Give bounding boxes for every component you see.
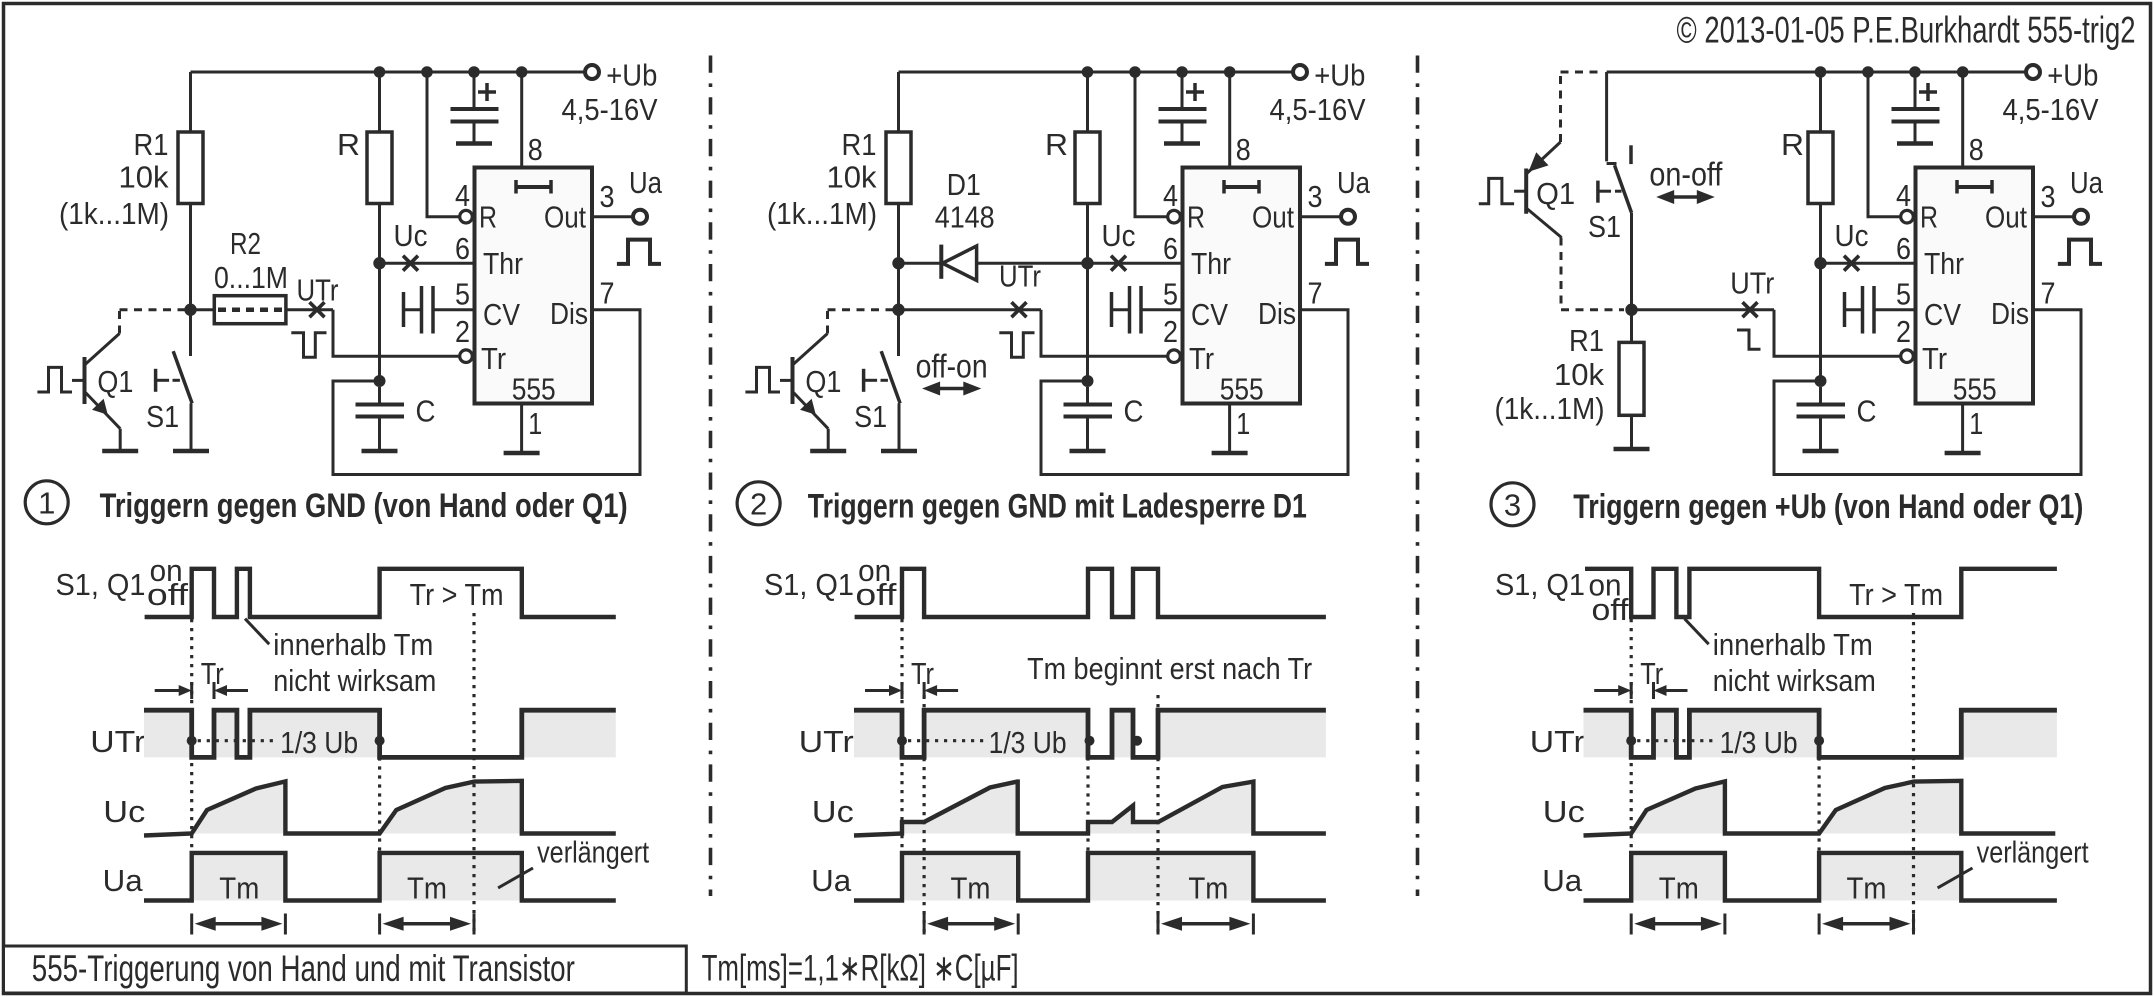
resistor R1 xyxy=(189,72,192,132)
separator panel 1/2 dash-dot xyxy=(709,56,713,897)
svg-text:R1: R1 xyxy=(842,127,877,162)
capacitor CV to ground xyxy=(402,292,406,327)
svg-text:555: 555 xyxy=(512,372,556,407)
svg-text:555: 555 xyxy=(1953,372,1997,407)
node 1/3Ub dots xyxy=(187,736,197,746)
ground S1 xyxy=(881,449,917,454)
symbol trigger pulse negative xyxy=(999,333,1034,357)
svg-text:Q1: Q1 xyxy=(805,364,841,399)
svg-text:CV: CV xyxy=(1191,297,1228,332)
node C top junction xyxy=(374,375,386,387)
svg-text:(1k...1M): (1k...1M) xyxy=(767,196,877,231)
svg-text:1: 1 xyxy=(1969,406,1983,441)
svg-text:Thr: Thr xyxy=(483,246,523,281)
line 1/3Ub dotted xyxy=(1637,739,1717,742)
svg-text:CV: CV xyxy=(1924,297,1961,332)
svg-text:8: 8 xyxy=(528,132,543,167)
svg-text:Q1: Q1 xyxy=(1536,176,1575,211)
svg-text:4,5-16V: 4,5-16V xyxy=(1270,92,1366,127)
svg-text:UTr: UTr xyxy=(799,724,854,759)
wire R1 to D1 node xyxy=(897,204,900,310)
wire +Ub supply rail xyxy=(899,71,1294,74)
svg-text:6: 6 xyxy=(455,231,470,266)
wire Dis loop xyxy=(333,310,640,475)
svg-text:10k: 10k xyxy=(119,160,169,195)
transistor Q1 xyxy=(37,367,72,392)
svg-text:Ua: Ua xyxy=(629,165,663,200)
resistor R1 xyxy=(897,72,900,132)
resistor R xyxy=(378,72,381,132)
wire Out xyxy=(2033,215,2074,218)
svg-text:Uc: Uc xyxy=(812,794,854,829)
probe Uc x-mark xyxy=(1111,256,1126,271)
svg-text:5: 5 xyxy=(1896,277,1911,312)
node 1/3Ub dots xyxy=(1626,736,1636,746)
svg-text:10k: 10k xyxy=(827,160,877,195)
terminal +Ub xyxy=(1293,65,1307,79)
svg-text:© 2013-01-05 P.E.Burkhardt 555: © 2013-01-05 P.E.Burkhardt 555-trig2 xyxy=(1677,10,2136,51)
svg-text:R: R xyxy=(337,127,360,162)
symbol move arrow xyxy=(1672,195,1699,199)
callout innerhalb line xyxy=(245,619,269,645)
wire trigger to Tr xyxy=(1041,310,1168,357)
node 1/3Ub dots xyxy=(897,736,907,746)
waveform S1/Q1 xyxy=(145,569,616,617)
symbol output pulse xyxy=(2058,240,2102,264)
svg-text:Uc: Uc xyxy=(394,218,428,253)
line dotted guides xyxy=(900,619,903,853)
svg-text:Out: Out xyxy=(544,200,586,235)
switch S1 xyxy=(897,310,900,356)
waveform Uc xyxy=(1631,781,1725,833)
ground C xyxy=(362,449,398,454)
waveform Uc xyxy=(902,782,1018,834)
arrow Tm measure xyxy=(378,914,381,935)
svg-text:(1k...1M): (1k...1M) xyxy=(59,196,169,231)
line dotted guides xyxy=(190,619,193,853)
wire Out xyxy=(1300,215,1341,218)
node rail junction dots xyxy=(1815,66,1827,78)
waveform UTr trace xyxy=(1584,710,2057,757)
node trigger junction xyxy=(184,304,196,316)
svg-text:6: 6 xyxy=(1896,231,1911,266)
node R1/D1 junction xyxy=(892,257,904,269)
svg-text:5: 5 xyxy=(455,277,470,312)
wire dashed Q1 collector link xyxy=(826,310,829,334)
bottom title box xyxy=(4,946,687,993)
svg-text:Tm: Tm xyxy=(951,871,991,906)
line dotted guides xyxy=(1630,619,1633,853)
svg-text:UTr: UTr xyxy=(1530,724,1585,759)
svg-text:1/3 Ub: 1/3 Ub xyxy=(1720,725,1798,760)
svg-text:S1, Q1: S1, Q1 xyxy=(764,567,854,602)
svg-text:8: 8 xyxy=(1236,132,1251,167)
wire trigger to Tr xyxy=(333,310,460,357)
transistor Q1 xyxy=(745,367,780,392)
symbol trigger pulse negative xyxy=(291,333,326,357)
wire reset pin4 xyxy=(427,72,460,217)
svg-text:S1: S1 xyxy=(854,399,887,434)
svg-text:nicht wirksam: nicht wirksam xyxy=(1713,663,1876,698)
svg-text:Uc: Uc xyxy=(1543,794,1585,829)
svg-text:Ua: Ua xyxy=(811,863,852,898)
svg-text:Q1: Q1 xyxy=(97,364,133,399)
resistor R xyxy=(1819,72,1822,132)
op-amp U1 555 timer IC xyxy=(1916,168,2034,404)
svg-text:Ua: Ua xyxy=(1542,863,1583,898)
svg-text:R: R xyxy=(1920,200,1938,235)
diode D1 xyxy=(899,262,942,265)
arrow Tm measure xyxy=(1157,914,1160,935)
svg-text:Ua: Ua xyxy=(2070,165,2104,200)
svg-text:R: R xyxy=(1781,127,1804,162)
capacitor C xyxy=(1086,387,1089,403)
svg-text:2: 2 xyxy=(750,486,767,521)
wire dashed Q1 emitter to rail xyxy=(1559,72,1562,142)
label panel number 3 circle xyxy=(1491,483,1534,526)
arrow Tr measure xyxy=(1594,689,1621,692)
svg-text:2: 2 xyxy=(1896,314,1911,349)
capacitor CV to ground xyxy=(1110,292,1114,327)
wire reset pin4 xyxy=(1135,72,1168,217)
svg-text:1/3 Ub: 1/3 Ub xyxy=(280,725,358,760)
svg-text:Triggern gegen GND (von Hand o: Triggern gegen GND (von Hand oder Q1) xyxy=(100,487,628,525)
svg-text:Tr > Tm: Tr > Tm xyxy=(1849,577,1943,612)
svg-text:off: off xyxy=(147,577,188,612)
capacitor C xyxy=(378,387,381,403)
waveform UTr band fill xyxy=(854,710,902,757)
svg-text:1/3 Ub: 1/3 Ub xyxy=(989,725,1067,760)
node Thr junction xyxy=(1814,257,1826,269)
pin Tr bubble xyxy=(1168,350,1181,363)
callout verlaengert line xyxy=(498,868,533,888)
svg-text:4,5-16V: 4,5-16V xyxy=(562,92,658,127)
svg-text:Tm: Tm xyxy=(1188,871,1228,906)
svg-text:4: 4 xyxy=(1163,178,1178,213)
wire trigger to Tr xyxy=(1774,310,1901,357)
svg-text:Tr: Tr xyxy=(1189,341,1214,376)
svg-text:+Ub: +Ub xyxy=(606,58,657,93)
svg-text:Thr: Thr xyxy=(1191,246,1231,281)
resistor R1 xyxy=(1630,310,1633,343)
node rail junction dots xyxy=(1082,66,1094,78)
svg-text:S1, Q1: S1, Q1 xyxy=(1495,567,1585,602)
resistor R2 potentiometer xyxy=(191,308,215,311)
waveform Ua trace xyxy=(854,853,1326,901)
svg-text:R1: R1 xyxy=(1569,323,1604,358)
ground elcap xyxy=(1164,141,1200,146)
svg-text:0...1M: 0...1M xyxy=(214,260,288,295)
line 1/3Ub dotted xyxy=(198,739,278,742)
wire Thr xyxy=(380,262,475,265)
svg-text:R: R xyxy=(479,200,497,235)
svg-text:D1: D1 xyxy=(947,167,981,202)
arrow Tm measure xyxy=(1818,914,1821,935)
svg-text:innerhalb Tm: innerhalb Tm xyxy=(273,627,433,662)
svg-text:Tm[ms]=1,1∗R[kΩ] ∗C[µF]: Tm[ms]=1,1∗R[kΩ] ∗C[µF] xyxy=(702,947,1019,988)
ground R1 xyxy=(1614,447,1650,452)
svg-text:2: 2 xyxy=(455,314,470,349)
node C top junction xyxy=(1082,375,1094,387)
symbol output pulse xyxy=(617,240,661,264)
svg-text:Tm: Tm xyxy=(219,871,259,906)
svg-text:Tr: Tr xyxy=(1640,656,1663,691)
symbol move arrow xyxy=(938,387,965,391)
svg-text:Tr > Tm: Tr > Tm xyxy=(410,577,504,612)
transistor Q1 xyxy=(1479,178,1514,203)
svg-text:Dis: Dis xyxy=(1991,296,2029,331)
terminal Ua xyxy=(633,210,647,224)
svg-text:Triggern gegen +Ub (von Hand o: Triggern gegen +Ub (von Hand oder Q1) xyxy=(1573,488,2083,526)
wire pin1 xyxy=(1228,404,1231,452)
waveform S1/Q1 xyxy=(1585,569,2057,617)
svg-text:4148: 4148 xyxy=(935,200,995,235)
svg-text:2: 2 xyxy=(1163,314,1178,349)
svg-text:verlängert: verlängert xyxy=(1977,835,2089,870)
symbol trigger step-down xyxy=(1737,330,1761,349)
svg-text:7: 7 xyxy=(600,276,615,311)
arrow Tr measure xyxy=(865,689,892,692)
probe Uc x-mark xyxy=(403,256,418,271)
svg-text:off-on: off-on xyxy=(916,348,988,385)
waveform UTr band fill xyxy=(144,710,192,757)
svg-text:3: 3 xyxy=(1308,179,1323,214)
ground elcap xyxy=(456,141,492,146)
svg-text:Triggern gegen GND mit Ladespe: Triggern gegen GND mit Ladesperre D1 xyxy=(808,488,1307,526)
pin R bubble xyxy=(1168,210,1181,223)
node Thr junction xyxy=(1081,257,1093,269)
svg-text:3: 3 xyxy=(1504,487,1521,522)
svg-text:1: 1 xyxy=(38,485,55,520)
waveform UTr trace xyxy=(144,710,616,757)
svg-text:R1: R1 xyxy=(134,127,169,162)
svg-text:nicht wirksam: nicht wirksam xyxy=(273,663,436,698)
wire dashed Q1 collector link xyxy=(118,310,121,334)
ground pin1 xyxy=(1212,451,1248,456)
svg-text:R2: R2 xyxy=(230,226,261,261)
svg-text:555-Triggerung von Hand und mi: 555-Triggerung von Hand und mit Transist… xyxy=(32,948,575,989)
wire Thr to C xyxy=(378,263,381,381)
svg-text:S1: S1 xyxy=(146,399,179,434)
svg-text:UTr: UTr xyxy=(1730,266,1774,301)
waveform S1/Q1 xyxy=(855,569,1326,617)
wire +Ub supply rail xyxy=(1607,71,2026,74)
waveform Uc xyxy=(192,781,286,833)
svg-text:+Ub: +Ub xyxy=(2047,58,2098,93)
capacitor C xyxy=(1819,387,1822,403)
arrow Tm measure xyxy=(190,914,193,935)
wire Dis loop xyxy=(1774,310,2081,475)
pin Tr bubble xyxy=(1901,350,1914,363)
symbol output pulse xyxy=(1325,240,1369,264)
svg-text:7: 7 xyxy=(1308,276,1323,311)
svg-text:6: 6 xyxy=(1163,231,1178,266)
svg-text:off: off xyxy=(1592,592,1629,627)
svg-text:Uc: Uc xyxy=(103,794,145,829)
node trigger junction xyxy=(892,304,904,316)
actuator S1 xyxy=(154,369,158,392)
wire Out xyxy=(592,215,633,218)
svg-text:UTr: UTr xyxy=(999,259,1041,294)
separator panel 2/3 dash-dot xyxy=(1416,56,1420,897)
ground pin1 xyxy=(1945,451,1981,456)
node Thr junction xyxy=(373,257,385,269)
svg-text:Tm beginnt erst nach Tr: Tm beginnt erst nach Tr xyxy=(1027,651,1312,686)
svg-text:8: 8 xyxy=(1969,132,1984,167)
svg-text:C: C xyxy=(1124,394,1144,429)
svg-text:Tr: Tr xyxy=(911,656,934,691)
pin R bubble xyxy=(460,210,473,223)
svg-text:10k: 10k xyxy=(1554,357,1604,392)
ground S1 xyxy=(173,449,209,454)
probe UTr x-mark xyxy=(1743,302,1758,317)
svg-text:UTr: UTr xyxy=(90,724,145,759)
ground Q1 xyxy=(102,449,138,454)
resistor R xyxy=(1086,72,1089,132)
svg-text:verlängert: verlängert xyxy=(537,835,649,870)
monoflop symbol xyxy=(1957,185,1992,189)
svg-text:off: off xyxy=(855,577,896,612)
svg-text:Uc: Uc xyxy=(1102,218,1136,253)
arrow Tm measure xyxy=(1630,914,1633,935)
op-amp U1 555 timer IC xyxy=(1183,168,1301,404)
svg-text:C: C xyxy=(416,394,436,429)
wire Dis loop xyxy=(1041,310,1348,475)
svg-text:555: 555 xyxy=(1220,372,1264,407)
waveform Ua trace xyxy=(1584,853,2057,901)
wire dashed Q1 collector to junction xyxy=(1560,238,1563,310)
node trigger junction xyxy=(1625,304,1637,316)
pin Tr bubble xyxy=(460,350,473,363)
svg-text:innerhalb Tm: innerhalb Tm xyxy=(1713,627,1873,662)
wire Thr xyxy=(1088,262,1183,265)
node rail junction dots xyxy=(374,66,386,78)
svg-text:(1k...1M): (1k...1M) xyxy=(1495,391,1605,426)
terminal +Ub xyxy=(585,65,599,79)
svg-text:R: R xyxy=(1187,200,1205,235)
terminal Ua xyxy=(2074,210,2088,224)
wire +Ub supply rail xyxy=(191,71,586,74)
waveform UTr band fill xyxy=(1584,710,1632,757)
ground C xyxy=(1070,449,1106,454)
svg-text:+Ub: +Ub xyxy=(1314,58,1365,93)
ground Q1 xyxy=(810,449,846,454)
svg-text:5: 5 xyxy=(1163,277,1178,312)
ground pin1 xyxy=(504,451,540,456)
ground C xyxy=(1803,449,1839,454)
wire UTr xyxy=(1632,308,1775,311)
svg-text:4,5-16V: 4,5-16V xyxy=(2003,92,2099,127)
node C top junction xyxy=(1815,375,1827,387)
label panel number 2 circle xyxy=(737,482,780,525)
svg-text:on-off: on-off xyxy=(1649,156,1723,193)
svg-text:4: 4 xyxy=(455,178,470,213)
pin R bubble xyxy=(1901,210,1914,223)
wire Thr to C xyxy=(1819,263,1822,381)
capacitor CV to ground xyxy=(1843,292,1847,327)
svg-text:7: 7 xyxy=(2041,276,2056,311)
svg-text:Tr: Tr xyxy=(481,341,506,376)
svg-text:Tm: Tm xyxy=(1847,871,1887,906)
capacitor electrolytic decoupling xyxy=(473,72,476,107)
ground elcap xyxy=(1897,141,1933,146)
probe UTr x-mark xyxy=(1012,302,1027,317)
capacitor electrolytic decoupling xyxy=(1914,72,1917,107)
svg-text:Tr: Tr xyxy=(201,656,224,691)
svg-text:Out: Out xyxy=(1252,200,1294,235)
arrow Tr measure xyxy=(155,689,182,692)
svg-text:S1, Q1: S1, Q1 xyxy=(56,567,146,602)
actuator S1 xyxy=(862,369,866,392)
svg-text:CV: CV xyxy=(483,297,520,332)
svg-text:Ua: Ua xyxy=(103,863,144,898)
callout innerhalb line xyxy=(1685,619,1709,645)
label panel number 1 circle xyxy=(25,481,68,524)
wire pin8 xyxy=(520,72,523,168)
monoflop symbol xyxy=(1224,185,1259,189)
terminal Ua xyxy=(1341,210,1355,224)
wire pin8 xyxy=(1961,72,1964,168)
line 1/3Ub dotted xyxy=(908,739,987,742)
wire Thr xyxy=(1821,262,1916,265)
probe Uc x-mark xyxy=(1844,256,1859,271)
svg-text:Ua: Ua xyxy=(1337,165,1371,200)
svg-text:3: 3 xyxy=(2041,179,2056,214)
svg-text:R: R xyxy=(1045,127,1068,162)
svg-text:Tr: Tr xyxy=(1922,341,1947,376)
switch S1 xyxy=(189,310,192,356)
waveform Ua fill xyxy=(1631,853,1725,901)
svg-text:S1: S1 xyxy=(1588,209,1621,244)
svg-text:Tm: Tm xyxy=(407,871,447,906)
svg-text:C: C xyxy=(1857,394,1877,429)
op-amp U1 555 timer IC xyxy=(475,168,593,404)
svg-text:1: 1 xyxy=(528,406,542,441)
wire UTr xyxy=(899,308,1042,311)
svg-text:Out: Out xyxy=(1985,200,2027,235)
monoflop symbol xyxy=(516,185,551,189)
svg-text:Tm: Tm xyxy=(1659,871,1699,906)
svg-text:3: 3 xyxy=(600,179,615,214)
terminal +Ub xyxy=(2026,65,2040,79)
wire Thr to C xyxy=(1086,263,1089,381)
svg-text:Dis: Dis xyxy=(1258,296,1296,331)
callout verlaengert line xyxy=(1938,868,1973,888)
svg-text:1: 1 xyxy=(1236,406,1250,441)
capacitor electrolytic decoupling xyxy=(1181,72,1184,107)
waveform Ua trace xyxy=(144,853,616,901)
actuator S1 xyxy=(1596,181,1600,203)
waveform UTr trace xyxy=(854,710,1326,757)
waveform Ua fill xyxy=(902,853,1018,901)
svg-text:UTr: UTr xyxy=(297,273,339,308)
arrow Tm measure xyxy=(923,914,926,935)
switch S1 xyxy=(1605,72,1608,161)
svg-text:Dis: Dis xyxy=(550,296,588,331)
waveform Ua fill xyxy=(192,853,286,901)
wire pin1 xyxy=(520,404,523,452)
wire reset pin4 xyxy=(1868,72,1901,217)
svg-text:4: 4 xyxy=(1896,178,1911,213)
wire pin8 xyxy=(1228,72,1231,168)
svg-text:Thr: Thr xyxy=(1924,246,1964,281)
svg-text:Uc: Uc xyxy=(1835,218,1869,253)
probe UTr x-mark xyxy=(310,302,325,317)
wire pin1 xyxy=(1961,404,1964,452)
